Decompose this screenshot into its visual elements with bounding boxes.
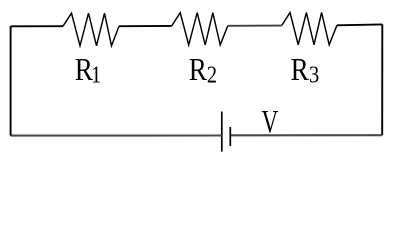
svg-text:R: R xyxy=(291,53,309,87)
resistor R2 xyxy=(172,13,228,45)
wire: between R2 and R3 xyxy=(228,25,282,27)
wire: right vertical xyxy=(381,24,383,135)
svg-text:1: 1 xyxy=(91,61,101,88)
resistor R1 xyxy=(63,13,119,46)
resistor R3 xyxy=(282,13,337,45)
svg-text:V: V xyxy=(262,105,279,141)
battery V: long plate xyxy=(221,112,223,152)
label R2 xyxy=(189,53,217,88)
svg-text:R: R xyxy=(189,53,207,87)
label V xyxy=(262,105,279,141)
wire: top right segment xyxy=(337,23,382,26)
wire: bottom right segment (battery to right corner) xyxy=(230,134,382,136)
battery V: short plate xyxy=(229,127,231,146)
wire: left vertical xyxy=(10,26,12,135)
wire: between R1 and R2 xyxy=(119,25,172,27)
svg-text:3: 3 xyxy=(309,61,319,88)
label R1 xyxy=(75,53,101,88)
svg-text:2: 2 xyxy=(207,61,217,88)
wire: top left segment xyxy=(11,25,63,27)
label R3 xyxy=(291,53,320,88)
wire: bottom left segment (left corner to battery) xyxy=(11,134,222,136)
